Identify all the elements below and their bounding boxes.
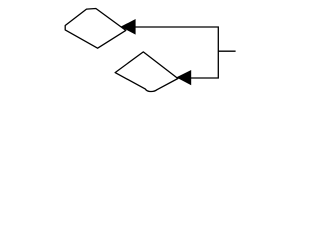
arrowhead into node A — [121, 19, 136, 35]
wire: from arrowhead A right, down, left to arrowhead B — [135, 27, 218, 78]
arrowhead into node B — [176, 70, 191, 85]
node A: top slanted quadrilateral with rounded top corner — [65, 9, 126, 49]
wire stub on right bus — [218, 50, 235, 52]
node B: bottom slanted quadrilateral with rounded bottom corner — [115, 52, 178, 92]
